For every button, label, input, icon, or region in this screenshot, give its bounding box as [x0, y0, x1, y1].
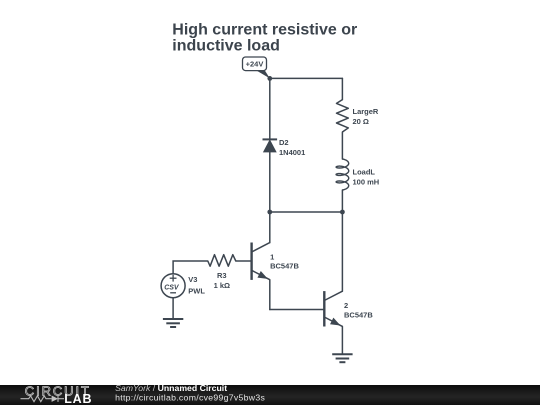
wire top rail from +24V node to right rail [270, 77, 343, 79]
svg-text:D2: D2 [279, 138, 289, 147]
svg-text:http://circuitlab.com/cve99g7v: http://circuitlab.com/cve99g7v5bw3s [115, 393, 265, 403]
wire R3 to Q1 base [236, 260, 252, 262]
svg-text:LargeR: LargeR [353, 107, 379, 116]
wire D2 anode to mid rail [269, 152, 271, 212]
logo schematic wire resistor diode [21, 396, 65, 402]
wire V3 top to R3 [173, 261, 208, 274]
svg-text:LAB: LAB [64, 392, 92, 405]
diode D2 [263, 139, 278, 152]
wire V3 bottom to ground [172, 298, 174, 319]
transistor Q1 BC547B [252, 243, 270, 280]
wire LargeR bottom to LoadL top [341, 132, 343, 159]
node +24V flag [243, 57, 270, 78]
svg-text:+24V: +24V [246, 60, 264, 69]
svg-text:20 Ω: 20 Ω [353, 117, 369, 126]
voltage source V3 [161, 274, 185, 298]
ground under V3 [163, 319, 183, 327]
wire LoadL bottom to mid rail [341, 190, 343, 212]
wire right rail to LargeR top [341, 78, 343, 99]
inductor LoadL [336, 159, 349, 190]
svg-text:V3: V3 [188, 275, 197, 284]
svg-text:LoadL: LoadL [353, 168, 376, 177]
svg-text:SamYork / Unnamed Circuit: SamYork / Unnamed Circuit [115, 385, 227, 393]
junction mid rail left [267, 210, 272, 215]
svg-text:BC547B: BC547B [270, 262, 299, 271]
svg-text:1N4001: 1N4001 [279, 148, 305, 157]
transistor Q2 BC547B [324, 291, 342, 326]
svg-text:CSV: CSV [164, 284, 180, 291]
resistor LargeR [337, 100, 349, 132]
wire Q2 emitter to ground [341, 326, 343, 354]
svg-text:2: 2 [344, 301, 348, 310]
wire mid rail to Q2 collector [341, 212, 343, 291]
footer bar [0, 385, 540, 405]
wire Q1 emitter down [269, 280, 271, 310]
svg-text:100 mH: 100 mH [353, 178, 380, 187]
svg-text:1 kΩ: 1 kΩ [214, 281, 230, 290]
wire mid rail [270, 211, 343, 213]
wire Q1 emitter to Q2 base [270, 309, 325, 311]
svg-text:PWL: PWL [188, 286, 205, 295]
ground under Q2 [332, 354, 352, 362]
svg-text:1: 1 [270, 252, 274, 261]
resistor R3 [208, 255, 236, 267]
svg-text:inductive load: inductive load [172, 38, 280, 55]
svg-text:R3: R3 [217, 271, 227, 280]
svg-text:BC547B: BC547B [344, 310, 373, 319]
junction mid rail right [340, 210, 345, 215]
wire mid rail to Q1 collector [269, 212, 271, 243]
junction +24V node [267, 76, 272, 81]
wire left rail +24V node to D2 cathode [269, 78, 271, 139]
svg-text:High current resistive or: High current resistive or [172, 21, 357, 38]
